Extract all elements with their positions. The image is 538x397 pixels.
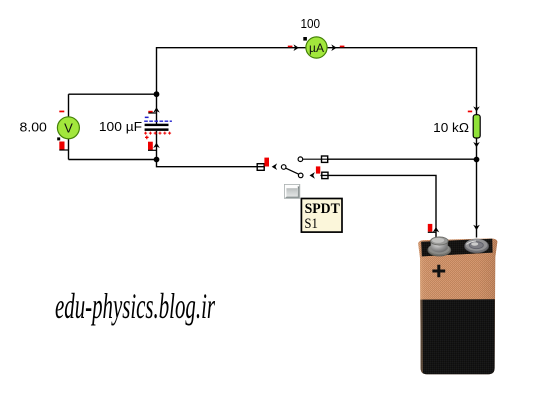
- wire voltmeter top branch: [69, 93, 157, 95]
- wire left vertical lower (capacitor bottom plate to bend, to switch common): [157, 131, 266, 167]
- battery BT1 plus sign: [432, 265, 445, 277]
- switch S1 pole pivot circle: [281, 165, 286, 170]
- current arrow down, above resistor: [473, 106, 480, 111]
- switch S1 label box: [301, 199, 342, 233]
- svg-text:V: V: [64, 121, 73, 136]
- small black marker square at voltmeter: [57, 137, 60, 140]
- capacitor C1 positive charge plus row: [144, 132, 171, 135]
- svg-text:10 kΩ: 10 kΩ: [433, 120, 469, 135]
- current arrow up, battery left lead: [433, 227, 440, 232]
- svg-text:100: 100: [301, 16, 321, 31]
- svg-text:8.00: 8.00: [20, 120, 47, 135]
- red probe flag at switch bottom throw: [316, 166, 320, 173]
- wire left vertical upper (top node down to capacitor top plate): [156, 47, 158, 124]
- current arrow left at switch common: [272, 163, 277, 170]
- wire top (node from C1 top to R1 top, through ammeter): [157, 47, 477, 49]
- wire voltmeter left vertical: [68, 94, 70, 159]
- node junction B (capacitor bottom / voltmeter / switch common): [154, 157, 160, 163]
- red probe flag below voltmeter: [59, 142, 64, 150]
- wire switch top throw to right junction: [328, 158, 477, 160]
- battery BT1 left (+) snap terminal: [428, 237, 451, 256]
- capacitor C1 positive charge single plus: [145, 136, 149, 140]
- svg-text:SPDT: SPDT: [305, 201, 340, 217]
- current arrow up, below capacitor: [153, 143, 160, 148]
- small black marker square at ammeter: [303, 37, 307, 41]
- switch S1 actuator button: [284, 184, 300, 199]
- red probe dash at capacitor top: [148, 111, 152, 113]
- current arrow up, above capacitor: [153, 107, 160, 112]
- current arrow left at switch bottom throw: [310, 172, 315, 179]
- probe tick line at capacitor bottom: [148, 149, 157, 151]
- wire voltmeter bottom branch: [69, 159, 157, 161]
- current arrow right, top wire right of ammeter: [331, 44, 336, 51]
- switch S1 bottom throw contact circle: [298, 173, 303, 178]
- switch S1 bottom throw terminal square: [322, 172, 328, 178]
- red probe flag at battery +: [428, 224, 433, 232]
- wire right vertical (top node through R1 down to battery + junction and right terminal): [476, 47, 478, 238]
- current arrow right, top wire left of ammeter: [294, 44, 299, 51]
- wire switch bottom throw to battery left terminal: [321, 175, 437, 237]
- red probe dash right of ammeter: [340, 46, 345, 48]
- svg-text:µA: µA: [309, 41, 324, 55]
- switch S1 top throw contact circle: [298, 157, 303, 162]
- probe tick line at capacitor top: [148, 112, 156, 114]
- svg-text:100 µF: 100 µF: [99, 119, 142, 134]
- red probe dash at resistor top: [468, 111, 472, 113]
- node junction C (resistor bottom / switch throw / battery +): [474, 157, 480, 163]
- ammeter U1 circle: [306, 37, 327, 58]
- red probe dash above voltmeter: [59, 111, 64, 113]
- red probe flag at capacitor bottom: [148, 142, 153, 150]
- svg-text:edu-physics.blog.ir: edu-physics.blog.ir: [55, 286, 216, 326]
- battery BT1 9V body: [418, 238, 497, 374]
- red probe dash left of ammeter: [288, 46, 293, 48]
- current arrow down, battery right lead: [473, 225, 480, 230]
- voltmeter U2 circle: [57, 117, 79, 139]
- resistor R1 body: [473, 115, 480, 138]
- capacitor C1 bottom plate: [145, 128, 169, 131]
- battery BT1 right (-) snap terminal: [465, 239, 489, 253]
- capacitor C1 negative charge dash row: [144, 121, 172, 122]
- switch S1 top throw terminal square: [322, 156, 328, 162]
- probe tick line below voltmeter: [59, 149, 68, 151]
- svg-text:S1: S1: [304, 216, 318, 232]
- switch S1 common terminal square: [257, 164, 264, 171]
- capacitor C1 top plate: [145, 124, 169, 126]
- probe tick line at battery +: [428, 231, 437, 233]
- wire switch top throw circle to its terminal: [303, 158, 329, 160]
- current arrow down, below resistor: [473, 142, 480, 147]
- capacitor C1 negative charge single mark: [145, 117, 149, 119]
- switch S1 moving arm: [286, 168, 299, 174]
- node junction A (capacitor top / voltmeter): [154, 91, 160, 97]
- red probe flag at switch common: [264, 158, 269, 167]
